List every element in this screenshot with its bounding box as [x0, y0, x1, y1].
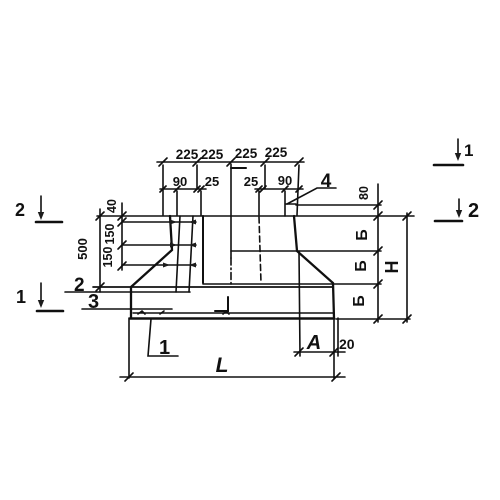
- svg-text:2: 2: [74, 275, 85, 296]
- slab left ext to L: [128, 318, 130, 378]
- rebar hook bracket top: [231, 167, 246, 169]
- leader 1: [148, 319, 178, 356]
- svg-text:225: 225: [235, 146, 258, 161]
- section marker 1 left: [40, 283, 42, 302]
- svg-text:A: A: [306, 332, 321, 354]
- svg-text:20: 20: [339, 336, 355, 352]
- H dim line right: [406, 213, 408, 322]
- extension line 150 level with arrows: [122, 244, 196, 246]
- L dim line: [120, 376, 345, 378]
- svg-text:500: 500: [75, 238, 90, 260]
- svg-text:150: 150: [103, 224, 117, 245]
- text 90/25 labels: [173, 173, 292, 189]
- label 3 leader line: [82, 308, 172, 310]
- dimension line top 225-row: [157, 161, 304, 163]
- label 2 leader line: [65, 291, 190, 293]
- left outer edge of pedestal: [131, 216, 172, 287]
- slab top line: [93, 286, 332, 288]
- hidden socket wall right (dashed): [259, 217, 261, 283]
- left slab edge: [130, 287, 132, 318]
- svg-text:80: 80: [357, 186, 371, 200]
- 20 extension vertical: [337, 318, 339, 356]
- svg-text:Б: Б: [351, 295, 368, 307]
- svg-text:4: 4: [321, 171, 332, 192]
- A extension vertical: [299, 251, 300, 356]
- svg-text:25: 25: [205, 174, 219, 189]
- svg-text:L: L: [216, 354, 229, 377]
- slab bedding line: [133, 312, 333, 314]
- svg-text:H: H: [382, 261, 402, 274]
- svg-text:1: 1: [464, 141, 473, 160]
- plate step (detail 4): [285, 204, 296, 216]
- svg-text:225: 225: [265, 145, 288, 160]
- bedding hatch marks: [138, 311, 229, 314]
- B dim line right: [377, 184, 379, 322]
- step line mid right: [231, 250, 381, 252]
- svg-text:1: 1: [159, 337, 170, 359]
- slab bottom edge: [130, 317, 334, 320]
- rebar hook bracket lower: [215, 297, 228, 311]
- section marker 2 right: [458, 199, 460, 212]
- svg-text:2: 2: [15, 200, 25, 220]
- svg-text:40: 40: [105, 199, 119, 213]
- dimension line second row right (25,90): [255, 188, 303, 190]
- foundation top edge: [97, 215, 414, 217]
- svg-text:3: 3: [88, 291, 99, 313]
- socket wall left inner: [202, 216, 204, 283]
- A dim line: [294, 351, 345, 353]
- socket wall left outer: [176, 216, 180, 292]
- ticks second row: [160, 186, 302, 192]
- socket wall left mid: [189, 216, 193, 292]
- svg-text:225: 225: [176, 147, 199, 162]
- left 500 dim line: [99, 209, 101, 292]
- section marker 1 right: [457, 139, 459, 155]
- right outer edge of pedestal: [294, 216, 334, 318]
- right dim extension top80 handled; slab bottom ext right: [336, 318, 410, 320]
- plate top line: [296, 204, 381, 206]
- dimension line second row left (90,25): [160, 188, 206, 190]
- centre line axis: [230, 164, 232, 258]
- extension line 150 level 2 with arrows: [122, 264, 196, 266]
- svg-text:90: 90: [173, 174, 187, 189]
- label 4 leader: [287, 188, 336, 204]
- svg-text:150: 150: [101, 247, 115, 268]
- tick marks 225-row: [159, 158, 303, 166]
- left 40/150/150 dim line: [121, 203, 123, 270]
- section marker 2 left: [40, 196, 42, 214]
- extension line 40 level with arrows: [122, 221, 196, 223]
- text 225 labels: [176, 145, 288, 162]
- svg-text:90: 90: [278, 173, 292, 188]
- svg-text:25: 25: [244, 174, 258, 189]
- svg-text:Б: Б: [353, 260, 370, 272]
- svg-text:Б: Б: [354, 229, 371, 241]
- slab right ext to L: [333, 318, 335, 378]
- svg-text:225: 225: [201, 147, 224, 162]
- svg-text:2: 2: [468, 200, 479, 222]
- extension verticals from top dims: [162, 165, 164, 215]
- svg-text:1: 1: [16, 287, 26, 307]
- socket bottom line: [203, 283, 381, 285]
